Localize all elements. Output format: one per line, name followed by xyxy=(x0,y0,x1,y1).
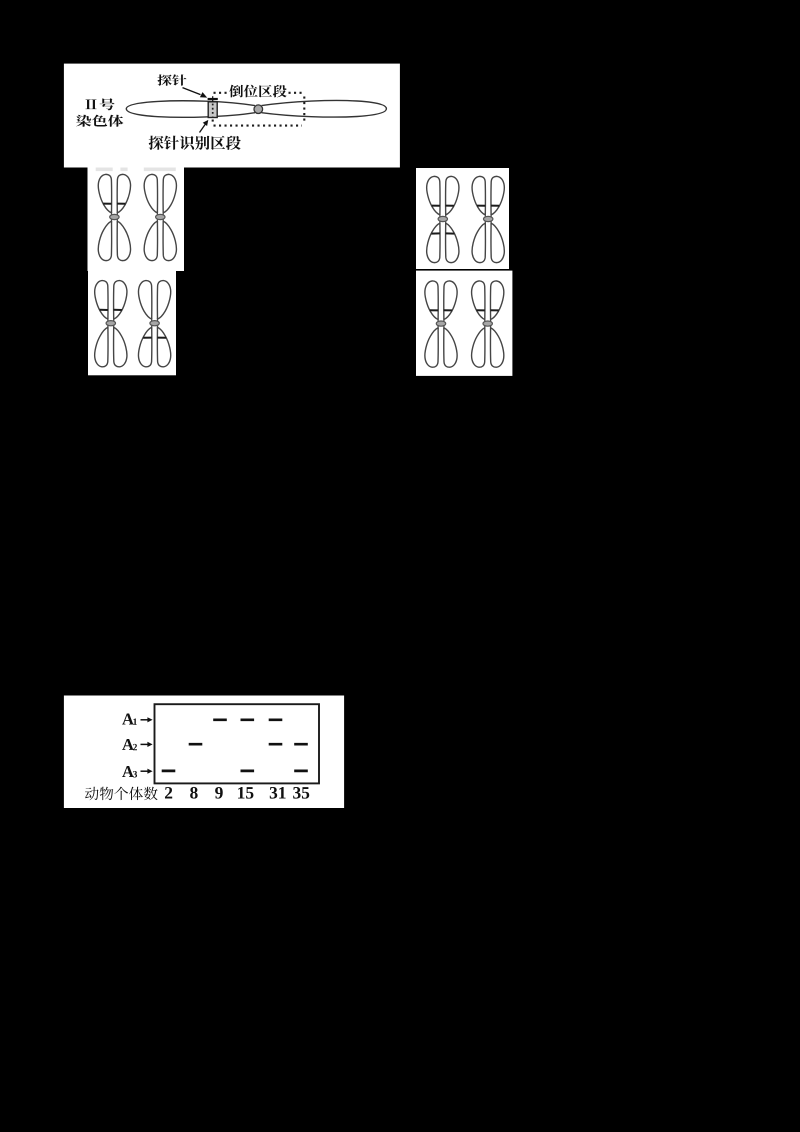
dotted rectangle: right edge xyxy=(303,97,305,124)
panel: gel electrophoresis figure xyxy=(64,696,344,809)
panel: top-left chromosome pair xyxy=(88,167,185,272)
band lines on bottom arms of pair2 left xyxy=(431,232,454,234)
dotted rectangle marking inversion segment: top edge xyxy=(214,92,229,94)
band lines on top arms of pair4 right xyxy=(477,309,499,311)
lane numbers 2 8 9 15 31 35 xyxy=(165,787,172,799)
arrow from recognition label to probe rectangle xyxy=(200,124,206,133)
band lines on top arms of pair2 right xyxy=(477,205,499,207)
chromosome: pair4 right xyxy=(472,281,504,367)
label: A1 with arrow xyxy=(122,714,134,725)
chromosome: pair1 right xyxy=(144,174,176,260)
dotted rectangle: bottom edge xyxy=(214,125,303,127)
chromosome: pair3 right xyxy=(138,281,170,367)
chromosome: pair2 right xyxy=(472,176,504,262)
arrow from probe label to probe tick xyxy=(183,88,201,95)
label: II hao (chromosome II) line 1 xyxy=(85,98,114,110)
band lines on bottom arms of pair3 right xyxy=(143,337,166,339)
gel bands xyxy=(162,720,308,771)
band lines on top arms of pair2 left xyxy=(432,205,454,207)
chromosome: pair3 left xyxy=(95,281,127,367)
scan smudges at top of panel xyxy=(96,168,176,172)
centromere of chromosome II xyxy=(254,105,263,114)
panel: bottom-right chromosome pair xyxy=(416,271,512,376)
dotted rectangle: left edge below probe xyxy=(212,120,214,125)
panel: bottom-left chromosome pair xyxy=(88,271,176,375)
probe recognition segment rectangle on chromosome xyxy=(208,102,217,118)
label: ranseti (chromosome) line 2 xyxy=(76,115,123,127)
label: probe recognition segment (tanzhen shibie quduan) xyxy=(149,136,241,150)
label: tanzhen (probe) xyxy=(157,74,186,85)
gel box xyxy=(155,704,320,783)
chromosome II right arm xyxy=(262,100,387,117)
chromosome: pair2 left xyxy=(427,176,459,262)
label: A2 with arrow xyxy=(122,739,134,750)
panel: top-right chromosome pair xyxy=(416,168,509,269)
chromosome: pair1 left xyxy=(98,174,130,260)
band lines on top arms of pair4 left xyxy=(430,309,452,311)
chromosome II left arm xyxy=(126,101,255,118)
label: animal individual counts (dongwu getishu) xyxy=(85,787,158,800)
dotted center line inside probe rectangle xyxy=(212,104,214,117)
panel: chromosome II probe diagram xyxy=(64,64,400,168)
chromosome: pair4 left xyxy=(425,281,457,367)
probe tick mark above chromosome xyxy=(208,98,218,100)
label: A3 with arrow xyxy=(122,766,134,777)
band lines on top arms of pair3 left xyxy=(100,309,122,311)
band lines on top arms of pair1 left xyxy=(103,203,125,205)
label: inversion segment (daowei quduan) xyxy=(229,85,286,98)
